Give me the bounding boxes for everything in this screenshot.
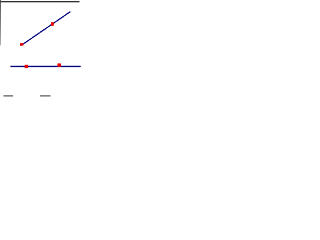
- bottom segment B1: [4, 95, 14, 96]
- marker dot D4 on track: [57, 63, 61, 66]
- left y-axis line: [0, 0, 2, 46]
- marker dot D1 on diagonal: [20, 43, 23, 46]
- diagonal alignment line: [21, 12, 71, 46]
- marker dot D3 on track: [25, 65, 28, 68]
- marker dot D2 on diagonal: [51, 22, 54, 26]
- horizontal track line: [10, 66, 80, 67]
- bottom segment B2: [40, 95, 51, 96]
- top x-axis line: [0, 1, 80, 2]
